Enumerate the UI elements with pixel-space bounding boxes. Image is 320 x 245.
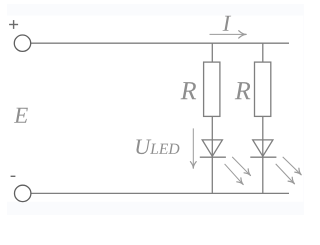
plus sign xyxy=(9,20,18,29)
LED D2 xyxy=(250,140,276,157)
LED D1 light arrow a xyxy=(232,157,250,176)
label U_LED xyxy=(136,139,151,154)
LED D1 light arrow b xyxy=(225,164,244,185)
LED D2 light arrow a xyxy=(283,157,302,175)
LED D1 xyxy=(200,140,226,157)
wire branch 2 vertical xyxy=(262,43,264,193)
white image area xyxy=(7,16,303,202)
wire top horizontal xyxy=(31,42,289,44)
resistor R1 xyxy=(204,62,220,116)
label E xyxy=(14,108,28,123)
background panel xyxy=(7,4,304,215)
label I xyxy=(223,16,232,31)
wire branch 1 vertical xyxy=(211,43,213,193)
resistor R2 xyxy=(255,62,271,116)
label R2 xyxy=(235,82,251,99)
LED D2 light arrow b xyxy=(276,164,295,184)
wire bottom horizontal xyxy=(31,192,289,194)
terminal negative xyxy=(15,185,31,201)
voltage arrow U_LED xyxy=(190,128,196,168)
current arrow I xyxy=(210,31,247,38)
minus sign xyxy=(11,175,16,177)
label R1 xyxy=(181,82,197,99)
terminal positive xyxy=(14,35,30,51)
